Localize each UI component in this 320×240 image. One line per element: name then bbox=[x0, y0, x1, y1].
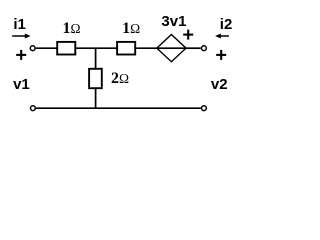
resistor R2 box bbox=[117, 42, 135, 55]
svg-text:i2: i2 bbox=[220, 16, 233, 33]
resistor R1 box bbox=[57, 42, 75, 55]
svg-text:i1: i1 bbox=[13, 16, 26, 33]
svg-text:1Ω: 1Ω bbox=[63, 20, 81, 37]
wire TL terminal to R1 bbox=[36, 47, 58, 49]
svg-text:v2: v2 bbox=[211, 76, 228, 93]
svg-text:v1: v1 bbox=[13, 76, 30, 93]
wire E1 to TR terminal bbox=[186, 47, 201, 49]
plus sign v1 bbox=[16, 50, 26, 60]
arrow i1 (current into port 1) bbox=[12, 34, 30, 39]
wire R2 to dependent source E1 bbox=[135, 47, 157, 49]
plus sign v2 bbox=[216, 50, 226, 60]
node terminal TL (port 1 top) bbox=[30, 46, 35, 51]
wire junction down to R3 bbox=[95, 48, 97, 69]
node terminal BR (port 2 bottom) bbox=[202, 106, 207, 111]
svg-text:3v1: 3v1 bbox=[161, 13, 186, 30]
arrow i2 (current into port 2) bbox=[215, 34, 229, 39]
svg-text:1Ω: 1Ω bbox=[122, 20, 140, 37]
wire through dependent source E1 bbox=[157, 47, 186, 49]
wire R3 down to bottom rail bbox=[95, 88, 97, 108]
node terminal BL (port 1 bottom) bbox=[31, 106, 36, 111]
dependent source E1 diamond bbox=[157, 35, 186, 62]
node terminal TR (port 2 top) bbox=[202, 46, 207, 51]
bottom rail wire bbox=[36, 107, 201, 109]
plus sign of E1 bbox=[183, 30, 193, 40]
svg-text:2Ω: 2Ω bbox=[111, 70, 129, 87]
wire R1 to R2 through junction bbox=[75, 47, 117, 49]
resistor R3 box (vertical) bbox=[89, 69, 102, 88]
